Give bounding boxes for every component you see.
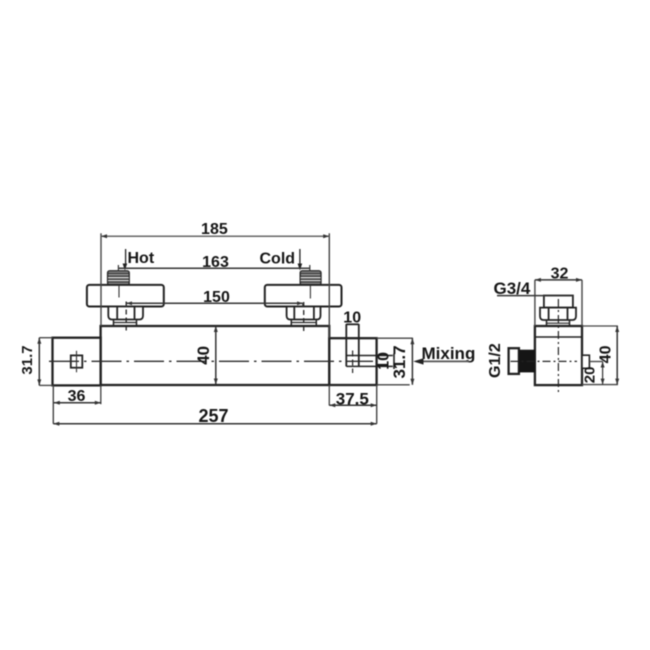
- cold hex nut: [287, 307, 321, 320]
- top outlet port on right bracket: [346, 324, 359, 366]
- hot hex nut: [108, 307, 143, 320]
- side vertical centerline: [557, 299, 559, 393]
- cold inlet centerline: [309, 285, 311, 299]
- dim 185 extension right: [328, 233, 330, 338]
- Hot leader arrow: [123, 249, 128, 271]
- left port square centerline: [76, 351, 78, 373]
- main centerline: [49, 360, 373, 362]
- svg-text:36: 36: [68, 388, 86, 405]
- Mixing arrow: [413, 358, 469, 364]
- svg-text:257: 257: [198, 406, 228, 426]
- cold nut tail: [291, 320, 316, 327]
- valve body bar: [101, 326, 330, 385]
- svg-text:163: 163: [202, 254, 229, 271]
- dim 36: [53, 385, 101, 423]
- dim 37.5: [329, 385, 376, 424]
- hot dashed centerline: [125, 302, 127, 332]
- left wall bracket: [53, 338, 101, 386]
- dim 40 front vertical: [214, 326, 218, 385]
- svg-text:G1/2: G1/2: [487, 343, 504, 378]
- port centerline: [352, 351, 354, 374]
- svg-text:Mixing: Mixing: [422, 344, 476, 363]
- hot inlet centerline: [118, 285, 120, 298]
- Cold leader arrow: [298, 249, 303, 271]
- svg-text:Hot: Hot: [128, 250, 155, 267]
- hot flange: [87, 285, 164, 307]
- dim 163 line: [118, 265, 309, 272]
- hot inlet thread: [108, 271, 130, 285]
- dim 31.7 left: [37, 338, 52, 386]
- dim 20: [589, 362, 604, 385]
- G3/4 leader: [497, 295, 573, 297]
- side body internal line: [535, 336, 582, 338]
- side body: [535, 326, 582, 385]
- left port square: [71, 355, 83, 367]
- svg-text:31.7: 31.7: [19, 345, 36, 374]
- outlet passage lines: [346, 356, 393, 367]
- dim 32 extension lines: [535, 280, 582, 326]
- right wall bracket: [329, 338, 376, 385]
- svg-text:20: 20: [582, 367, 599, 384]
- cold flange: [265, 285, 342, 307]
- side hex nut: [540, 308, 576, 320]
- dim 32 line: [535, 278, 582, 282]
- svg-text:31.7: 31.7: [390, 345, 409, 378]
- cold inlet thread: [300, 271, 321, 285]
- dim 10 right of port: [393, 354, 395, 370]
- svg-text:37.5: 37.5: [336, 389, 369, 408]
- svg-text:150: 150: [203, 289, 230, 306]
- dim 257: [53, 422, 376, 426]
- svg-text:40: 40: [598, 345, 615, 363]
- side horizontal centerline: [511, 360, 578, 362]
- svg-text:32: 32: [551, 265, 569, 282]
- svg-text:10: 10: [343, 309, 361, 326]
- G3/4 neck: [544, 296, 573, 308]
- svg-text:40: 40: [194, 346, 213, 365]
- dim 40 right: [582, 326, 619, 385]
- dim 31.7 right: [377, 338, 415, 385]
- cold dashed centerline: [303, 302, 305, 333]
- dim 185 line: [101, 234, 329, 238]
- G1/2 inlet thread (black): [519, 350, 535, 373]
- svg-text:Cold: Cold: [260, 251, 296, 268]
- hot nut tail: [114, 320, 137, 327]
- G1/2 inlet stub flange: [509, 348, 519, 374]
- side outlet tab: [582, 355, 589, 368]
- dim 185 extension left: [100, 233, 102, 326]
- side nut tail: [547, 320, 570, 326]
- dim 150 line: [126, 301, 302, 306]
- svg-text:185: 185: [201, 221, 228, 238]
